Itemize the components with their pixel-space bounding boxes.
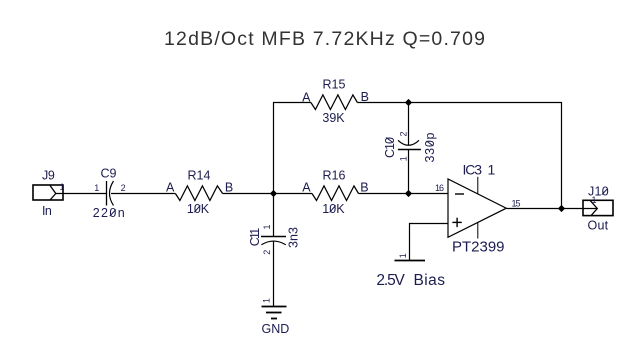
svg-text:C11: C11 [248, 228, 262, 247]
svg-text:330p: 330p [423, 132, 437, 162]
wire C11 top pin [273, 194, 275, 237]
svg-text:15: 15 [512, 198, 521, 208]
svg-text:2: 2 [121, 183, 126, 193]
svg-text:Bias: Bias [414, 272, 446, 289]
svg-text:GND: GND [262, 322, 290, 336]
svg-text:R16: R16 [323, 168, 346, 182]
slash on 0 of J10 [602, 189, 608, 195]
svg-text:A: A [302, 180, 311, 194]
svg-text:2: 2 [399, 131, 409, 136]
svg-text:A: A [302, 90, 311, 104]
svg-text:1: 1 [399, 156, 409, 161]
slash on 0 of 220n [110, 210, 116, 217]
op-amp IC3.1 [448, 177, 506, 239]
capacitor C10 [398, 140, 421, 149]
svg-text:B: B [225, 180, 233, 194]
svg-text:39K: 39K [322, 111, 345, 125]
svg-text:3n3: 3n3 [287, 227, 301, 248]
svg-text:1: 1 [592, 195, 597, 205]
svg-text:IC3: IC3 [463, 162, 483, 178]
svg-text:220n: 220n [93, 206, 125, 220]
wire R15 to corner and down to output node [357, 103, 561, 209]
wire op-amp plus input to bias [410, 224, 449, 261]
capacitor C11 [261, 237, 286, 245]
slash on 0 of 10K [194, 206, 200, 213]
svg-text:In: In [42, 204, 52, 218]
wire C10 top pin [408, 103, 410, 146]
wire C9 to R14 [111, 193, 175, 195]
wire node up to feedback row [274, 103, 311, 194]
svg-text:12dB/Oct MFB 7.72KHz Q=0.709: 12dB/Oct MFB 7.72KHz Q=0.709 [164, 28, 485, 50]
ground [262, 307, 287, 319]
title [164, 28, 485, 50]
svg-text:R15: R15 [323, 78, 346, 92]
junction at C10 bottom [405, 190, 412, 197]
junction at C10 top [405, 99, 412, 106]
svg-text:C9: C9 [101, 167, 117, 181]
resistor R16 [312, 186, 359, 201]
svg-text:1: 1 [94, 183, 99, 193]
svg-text:1: 1 [262, 298, 272, 303]
junction at output node [558, 205, 565, 212]
connector J9 [33, 185, 63, 200]
wire C11 bottom pin to GND [273, 241, 275, 307]
svg-text:10K: 10K [322, 202, 345, 216]
svg-text:B: B [360, 180, 368, 194]
svg-text:1: 1 [488, 162, 496, 178]
svg-text:R14: R14 [188, 168, 211, 182]
connector J10 [583, 200, 613, 215]
slash on 0 of R16 10K [330, 206, 336, 213]
resistor R14 [175, 186, 222, 201]
svg-text:2: 2 [262, 250, 272, 255]
wire R16 to op-amp [359, 193, 449, 195]
wire J9 to C9 [56, 193, 106, 195]
svg-text:PT2399: PT2399 [452, 238, 505, 255]
supply 2.5V bias bar [395, 260, 426, 262]
svg-text:1: 1 [262, 224, 272, 229]
svg-text:1: 1 [60, 182, 65, 192]
resistor R15 [311, 95, 358, 110]
capacitor C9 [107, 181, 114, 206]
svg-text:2.5V: 2.5V [376, 272, 405, 289]
svg-text:10K: 10K [187, 202, 210, 216]
slash on 0 of 330p [427, 141, 434, 146]
svg-text:16: 16 [435, 183, 444, 193]
junction node after R14 [270, 190, 277, 197]
wire C10 bottom pin [408, 149, 410, 193]
wire R14 to node [223, 193, 312, 195]
slash on 0 of C10 [386, 138, 393, 143]
svg-text:Out: Out [588, 219, 609, 233]
wire op-amp output to J10 [506, 208, 597, 210]
svg-text:J9: J9 [42, 168, 55, 182]
svg-text:B: B [361, 90, 369, 104]
svg-text:A: A [166, 180, 175, 194]
svg-text:1: 1 [398, 253, 408, 258]
